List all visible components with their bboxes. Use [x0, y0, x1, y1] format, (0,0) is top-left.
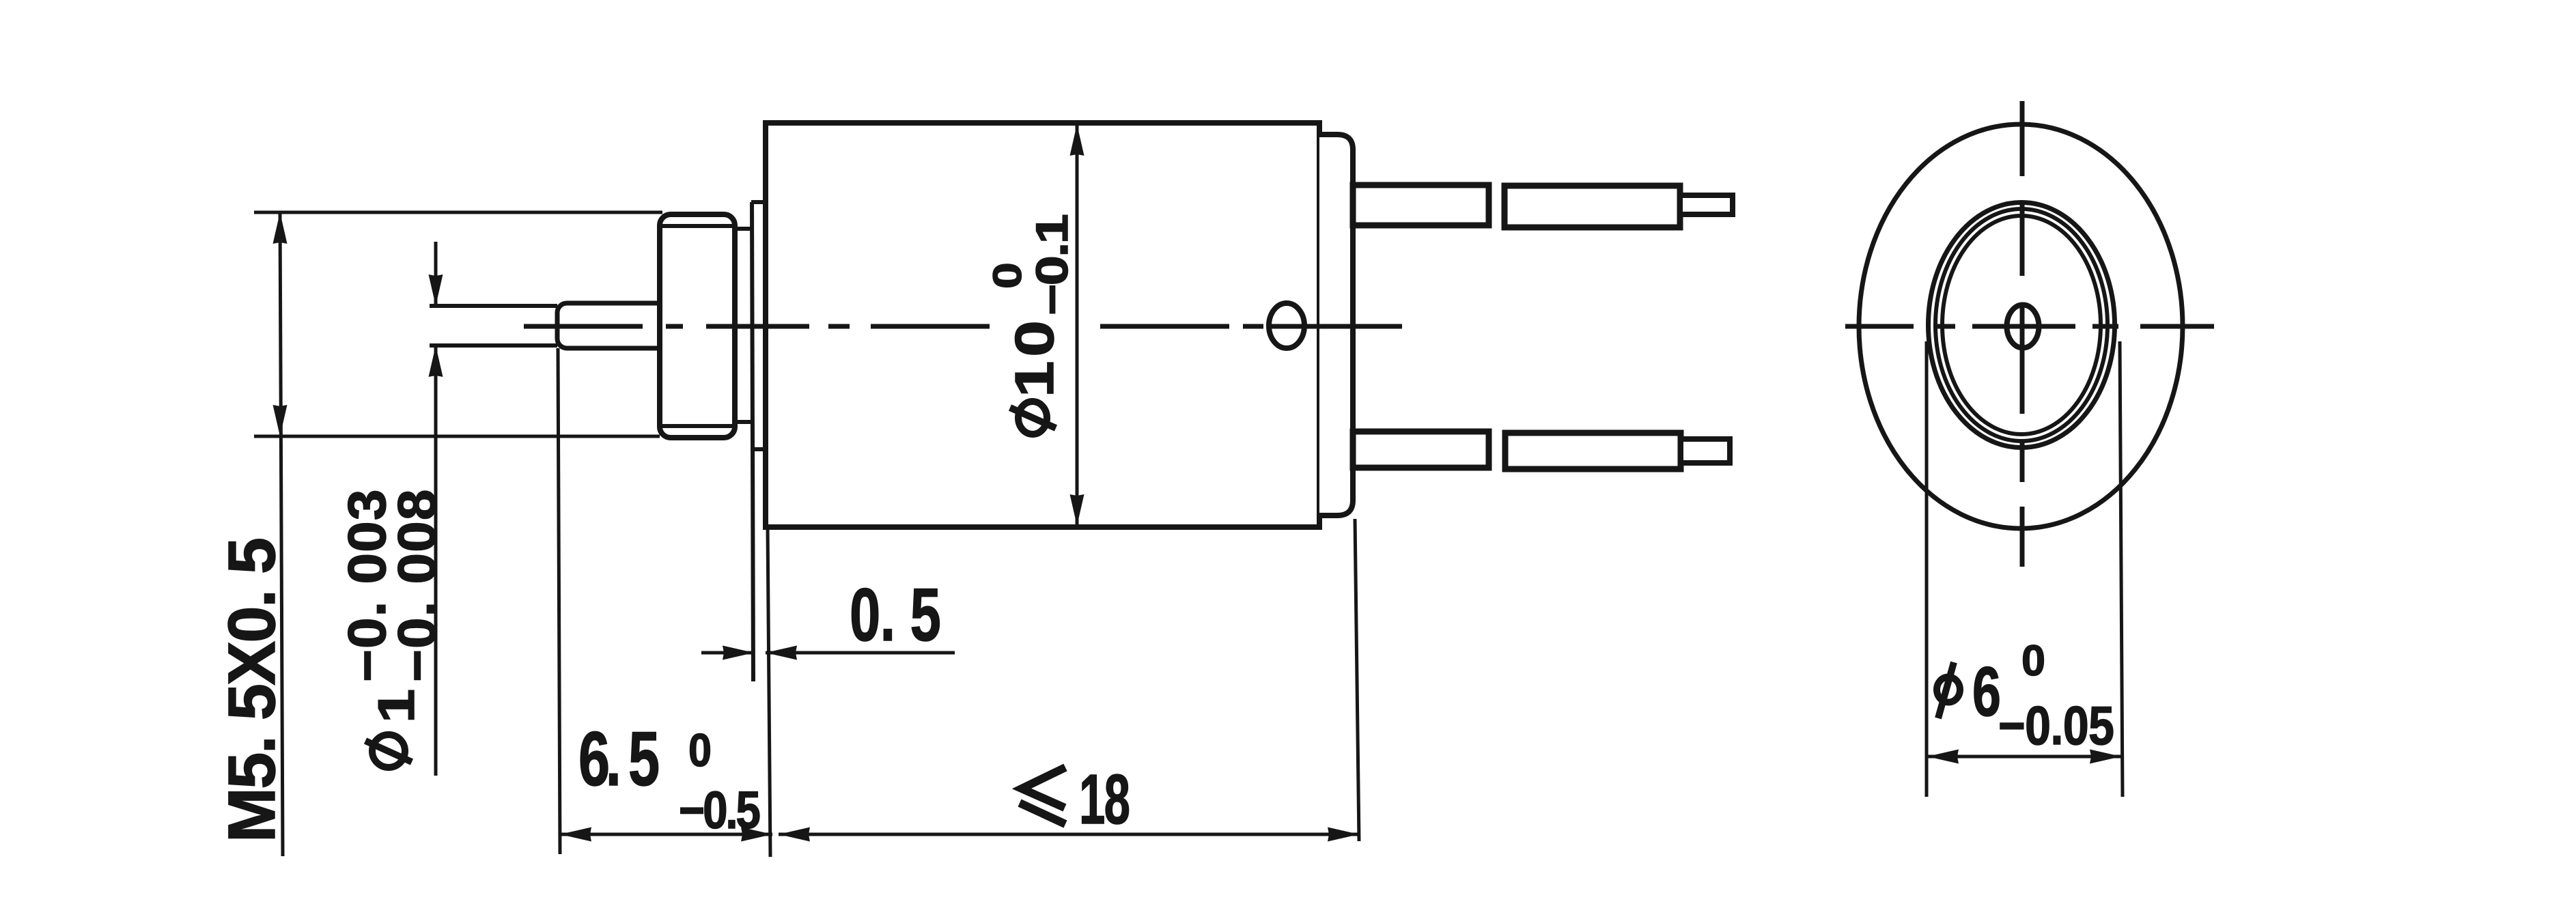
upper wire stripped tip: [1680, 195, 1733, 214]
svg-text:0: 0: [985, 262, 1029, 289]
body axis centerline: [524, 324, 1402, 329]
collar on shaft: [557, 303, 667, 348]
body (solenoid case): [766, 123, 1319, 527]
<=18 dimension line: [779, 833, 1359, 836]
M5.5 bottom extension line: [254, 435, 660, 438]
svg-text:6. 5: 6. 5: [578, 716, 660, 802]
end view boss ring middle: [1935, 209, 2108, 441]
extension line from cap to <=18 dimension: [1355, 519, 1359, 841]
svg-text:6: 6: [1972, 653, 2001, 731]
lower lead wire segment 1: [1353, 432, 1489, 468]
phi6 right extension line: [2120, 341, 2123, 797]
horizontal crosshair centerline: [1845, 324, 2214, 329]
vertical crosshair centerline: [2020, 101, 2025, 567]
flange left face + 0.5 extension line: [752, 202, 753, 681]
phi6 dimension line: [1927, 755, 2121, 759]
M5.5X0.5 dimension line: [280, 212, 283, 856]
phi symbol of phi6 label: [1937, 662, 1960, 718]
end view boss ring outer: [1929, 203, 2115, 448]
upper lead wire segment 2: [1504, 186, 1680, 227]
end view center hole: [2007, 305, 2039, 348]
svg-text:18: 18: [1079, 760, 1130, 838]
phi10 dimension line with arrows: [1076, 124, 1079, 526]
6.5 extension line from collar step: [558, 348, 560, 854]
end view boss ring inner: [1942, 216, 2101, 434]
svg-text:0: 0: [2021, 637, 2045, 685]
svg-text:−0. 008: −0. 008: [387, 490, 447, 682]
small hole on body: [1269, 303, 1304, 348]
<= symbol: [1020, 767, 1065, 824]
phi6 left extension line: [1925, 341, 1929, 797]
body left extension line for 0.5 / 6.5: [768, 527, 770, 857]
6.5 dimension line: [560, 833, 772, 836]
lower wire stripped tip: [1681, 439, 1730, 463]
lower lead wire segment 2: [1505, 433, 1681, 469]
M5.5 top extension line: [254, 211, 662, 214]
svg-text:−0.1: −0.1: [1027, 214, 1077, 315]
svg-text:−0.05: −0.05: [1998, 695, 2114, 756]
svg-text:M5. 5X0. 5: M5. 5X0. 5: [214, 537, 289, 843]
bushing M5.5 threaded neck: [660, 214, 735, 438]
shaft (plunger pin): [430, 306, 557, 345]
svg-text:0. 5: 0. 5: [850, 572, 941, 657]
neck between bushing and flange: [735, 229, 751, 422]
svg-text:1: 1: [367, 689, 425, 723]
0.5 dimension line left part: [701, 651, 754, 655]
flange disc: [751, 202, 766, 449]
svg-text:−0.5: −0.5: [679, 781, 761, 840]
0.5 dimension line right part: [766, 651, 955, 655]
phi1 dimension line with arrows: [434, 242, 438, 776]
svg-text:0: 0: [688, 724, 712, 776]
phi symbol of phi1 label: [365, 735, 412, 767]
bushing chamfer lines: [660, 226, 735, 426]
end cap: [1319, 135, 1353, 515]
phi symbol of phi10 label: [1010, 401, 1056, 434]
end view outer shell: [1859, 124, 2183, 528]
upper lead wire segment 1: [1353, 185, 1489, 225]
